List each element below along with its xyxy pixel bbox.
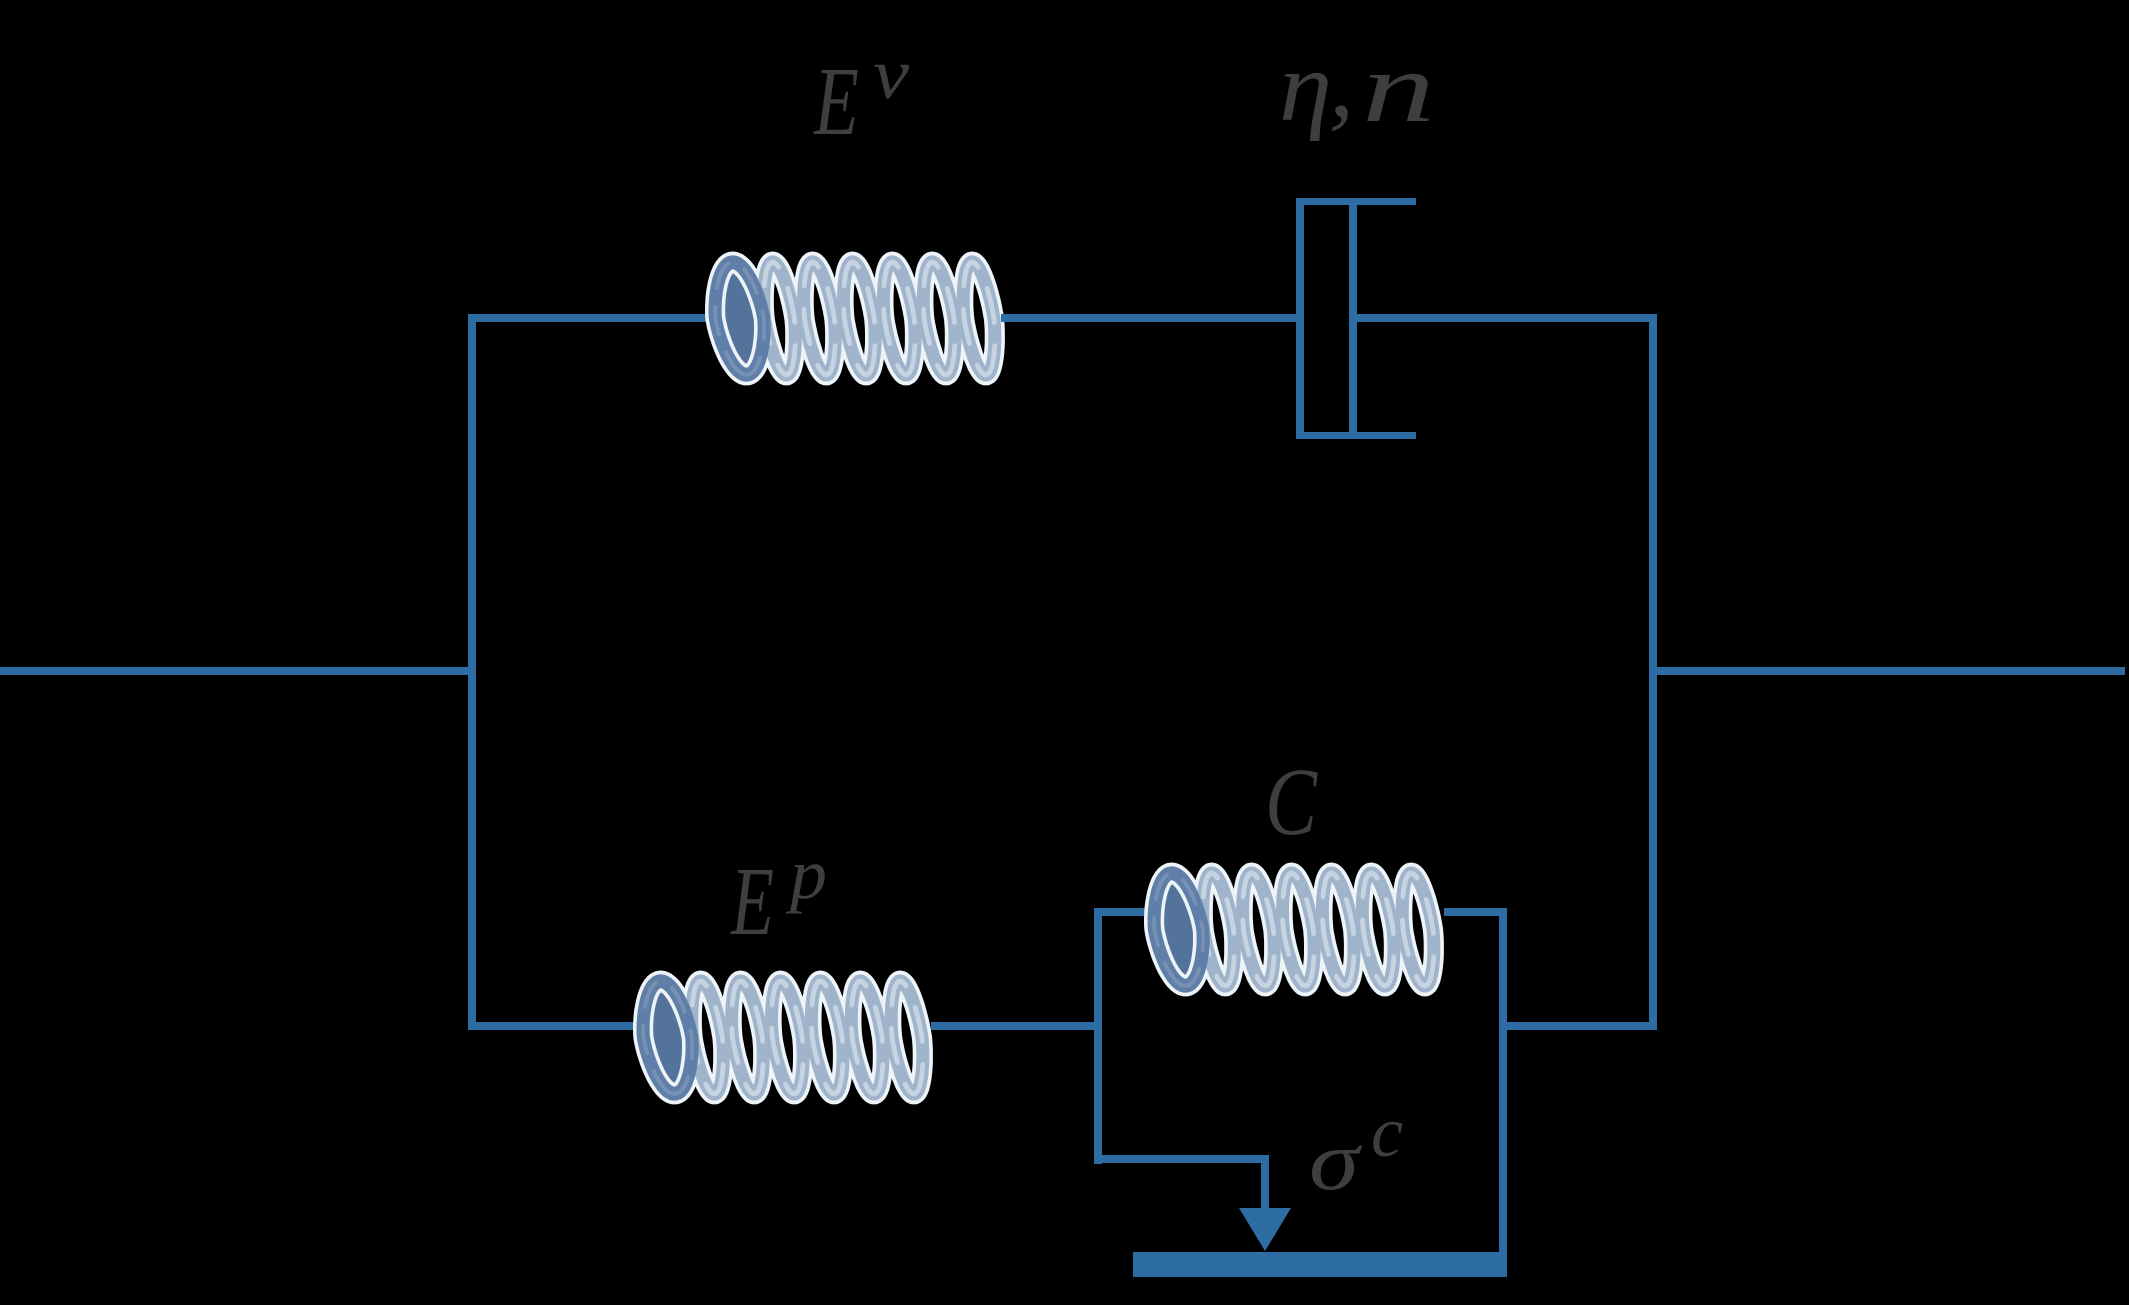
wire top branch left segment — [468, 314, 708, 322]
svg-text:E: E — [730, 848, 774, 956]
wire left vertical riser — [468, 314, 476, 1030]
dashpot piston rod — [1349, 203, 1357, 432]
svg-text:p: p — [785, 834, 827, 914]
dashpot cylinder bottom cap — [1296, 432, 1416, 439]
node right stub of slider block — [1499, 908, 1507, 1252]
wire bottom branch right segment — [1507, 1022, 1653, 1030]
node left stub of slider block — [1094, 908, 1102, 1164]
friction bar — [1133, 1252, 1507, 1277]
svg-text:C: C — [1265, 748, 1318, 855]
svg-text:n: n — [1362, 32, 1435, 143]
spring Ep — [643, 981, 923, 1093]
label sigma-c — [1309, 1092, 1403, 1208]
wire arrow drop — [1261, 1155, 1269, 1208]
wire top-left connector to spring C — [1094, 908, 1146, 916]
arrow head sigma-c — [1239, 1208, 1291, 1251]
label Ep — [730, 834, 827, 956]
wire right vertical riser — [1649, 314, 1657, 1030]
spring C — [1154, 873, 1434, 985]
wire right lead — [1649, 667, 2125, 675]
spring Ev — [715, 262, 995, 374]
wire bottom branch left segment — [468, 1022, 636, 1030]
svg-text:,: , — [1329, 27, 1354, 138]
wire bottom branch mid segment — [931, 1022, 1096, 1030]
wire left lead — [0, 667, 476, 675]
wire top branch mid segment — [1001, 314, 1298, 322]
dashpot cylinder left wall — [1296, 198, 1304, 439]
dashpot cylinder top cap — [1296, 198, 1416, 205]
svg-text:E: E — [812, 48, 859, 156]
wire top branch right segment — [1357, 314, 1657, 322]
wire top-right connector from spring C — [1444, 908, 1507, 916]
svg-text:v: v — [873, 34, 909, 114]
svg-text:η: η — [1279, 31, 1332, 142]
label eta, n — [1279, 27, 1435, 143]
wire slider bottom segment — [1094, 1155, 1269, 1163]
svg-text:σ: σ — [1309, 1114, 1363, 1208]
label Ev — [812, 34, 909, 156]
svg-text:c: c — [1371, 1092, 1403, 1172]
